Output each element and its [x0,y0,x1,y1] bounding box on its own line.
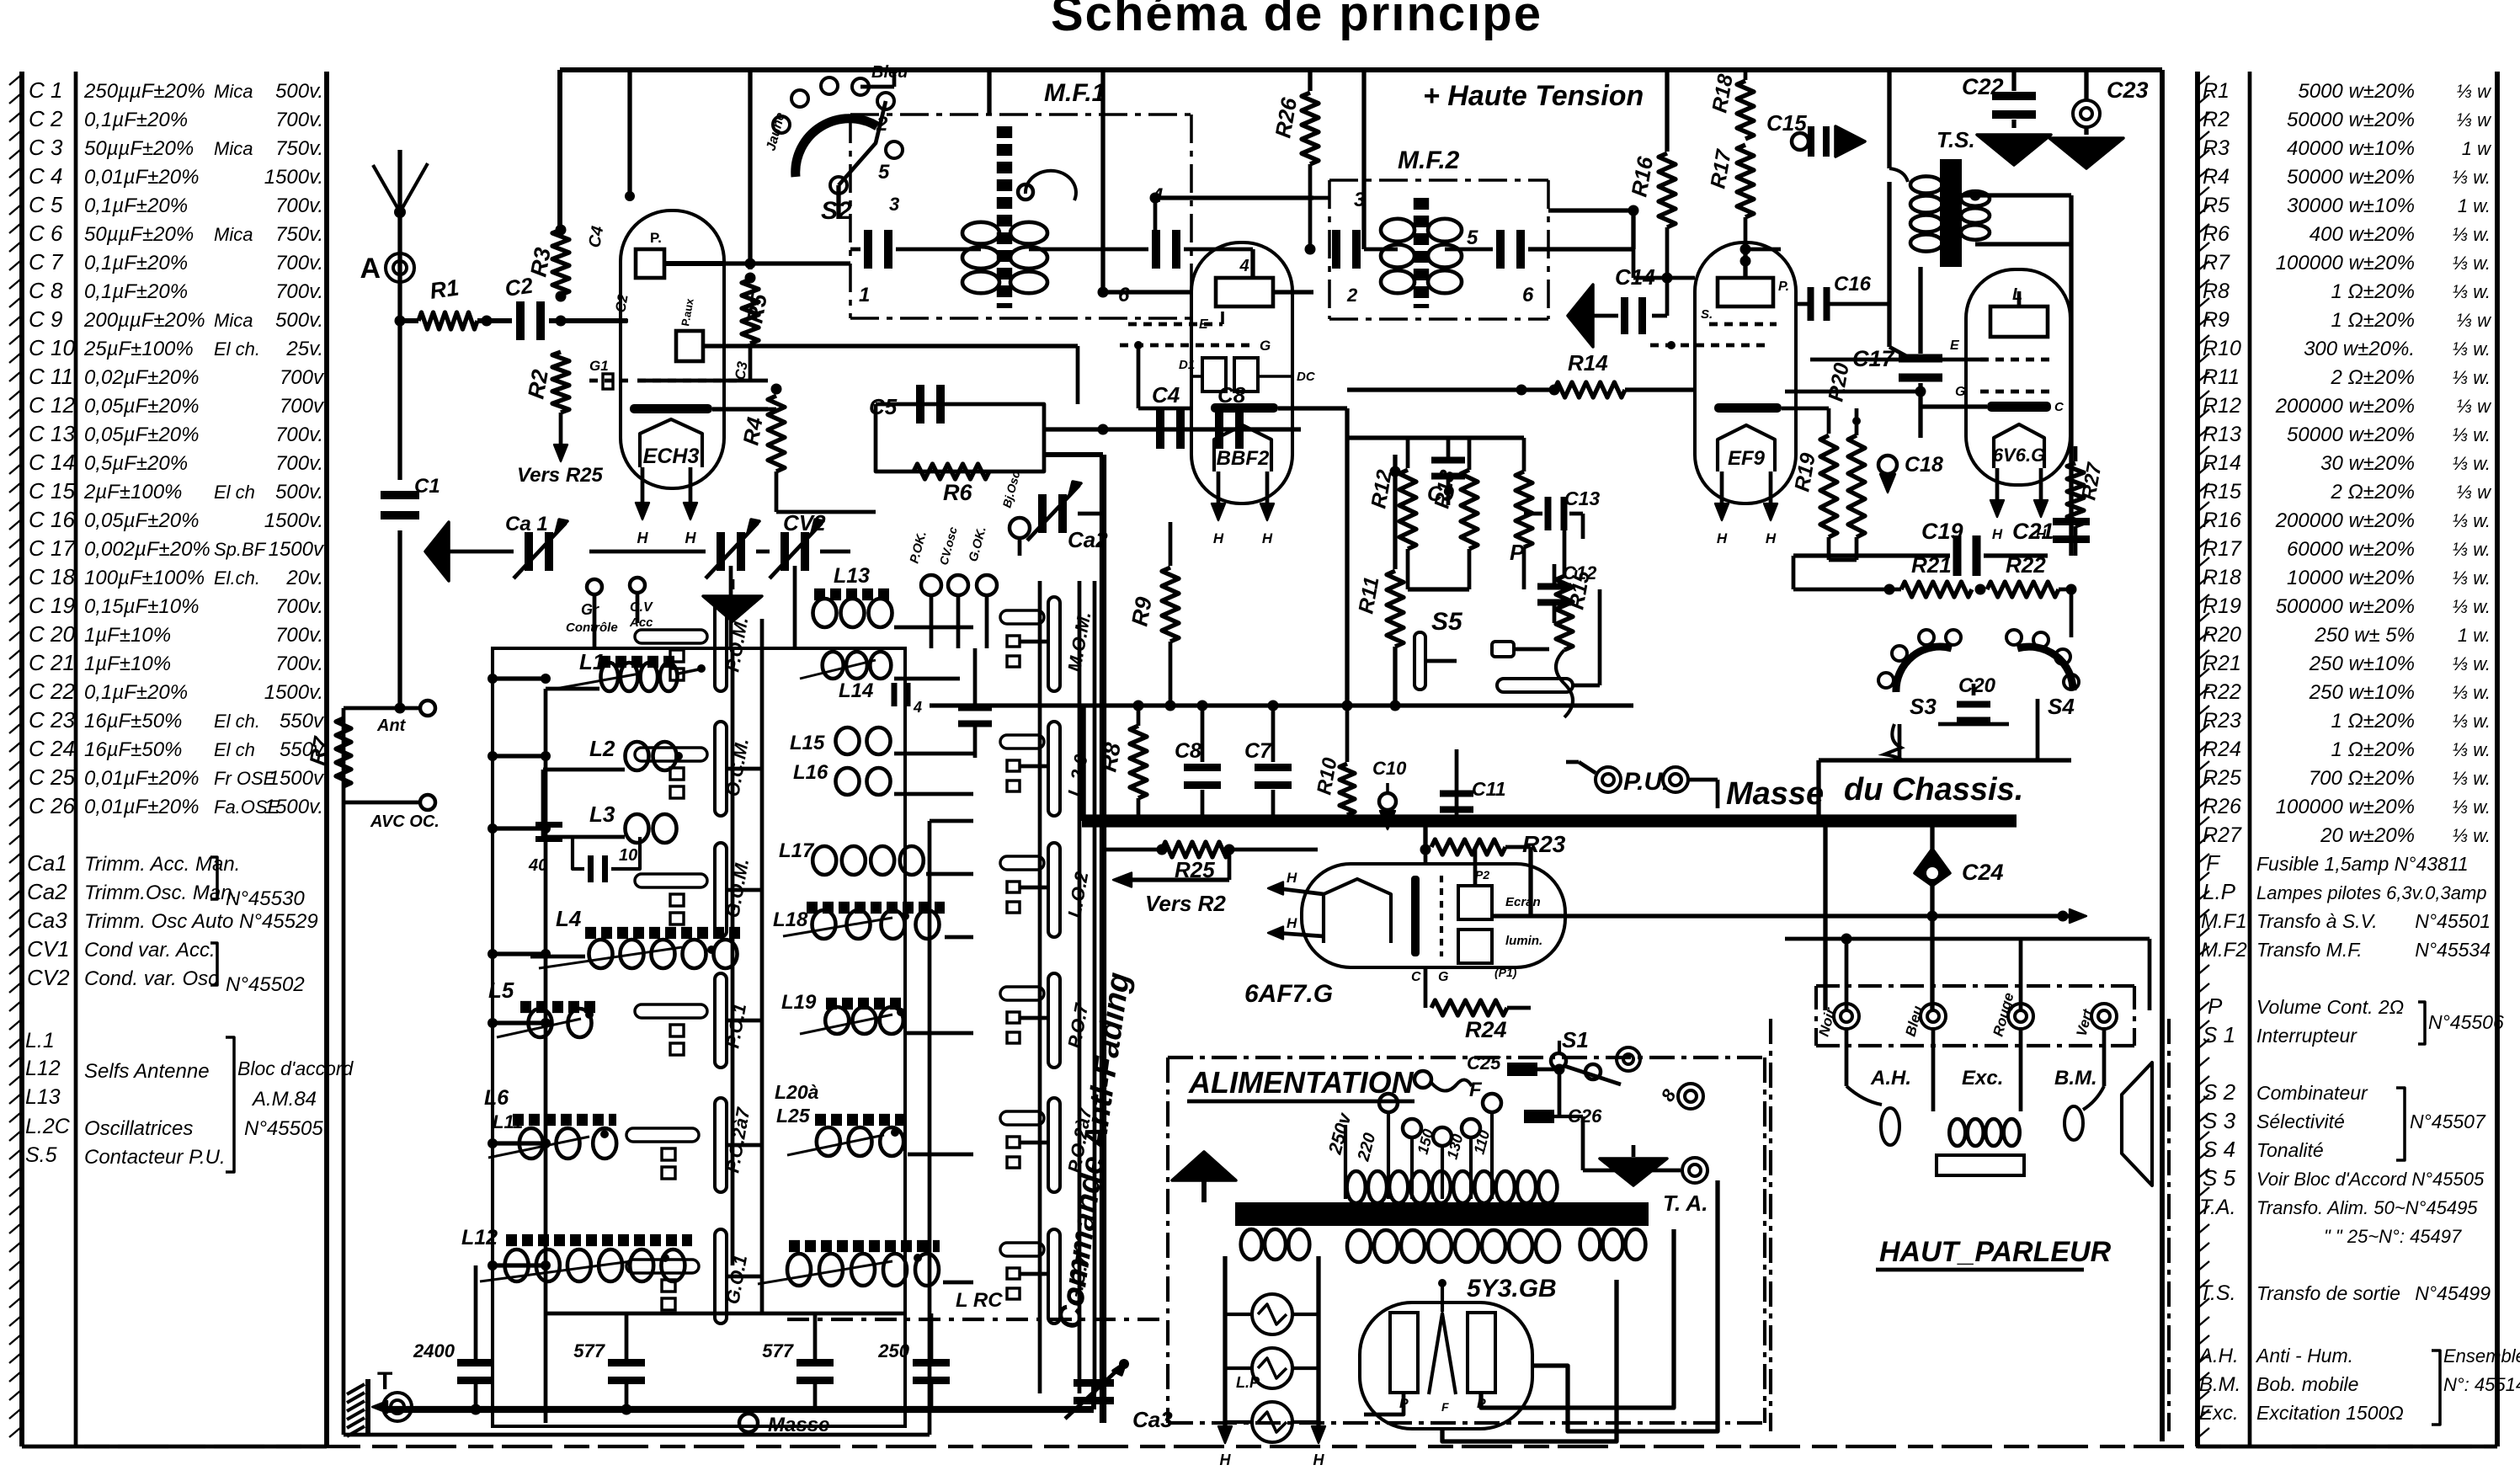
svg-text:C 25: C 25 [29,764,75,790]
svg-text:R20: R20 [2203,623,2241,647]
svg-text:50000 w±20%: 50000 w±20% [2287,109,2415,131]
M.F.2 secondary coil [1428,219,1462,242]
resistor R11 [1393,455,1397,569]
pilot lamp LP1 [1252,1294,1292,1334]
coil L1 core [599,656,679,668]
svg-text:L17: L17 [779,839,815,862]
wire MF1 pin4 row [1155,195,1313,200]
svg-text:R14: R14 [2203,451,2241,475]
svg-text:700v.: 700v. [275,252,323,274]
fuse F [1415,1071,1431,1088]
resistor R24 [1424,967,1428,1008]
contact strips right column [1048,597,1060,691]
capacitor C9 [1431,457,1465,464]
svg-text:Ensemble: Ensemble [2443,1345,2520,1366]
capacitor 40 [535,822,562,828]
terminals P.U. [1596,767,1621,792]
T.S. primary coil [1910,176,1942,193]
svg-text:Volume Cont. 2Ω: Volume Cont. 2Ω [2256,996,2404,1018]
svg-text:0,1µF±20%: 0,1µF±20% [84,681,188,704]
svg-text:R21: R21 [1911,552,1952,578]
coil L15 [836,727,860,754]
trimmer Ca1 [525,532,533,571]
svg-text:20 w±20%: 20 w±20% [2320,824,2415,847]
svg-text:G1: G1 [589,358,609,374]
svg-text:S.5: S.5 [25,1143,57,1167]
wire top row pin4 [1313,196,1329,200]
left table bottom rule [22,1445,327,1449]
svg-text:R6: R6 [943,480,972,505]
svg-text:G: G [1438,970,1448,984]
svg-text:R15: R15 [2203,480,2241,503]
bottom wire of outer box [344,1433,930,1437]
svg-text:1µF±10%: 1µF±10% [84,624,171,647]
svg-text:700v: 700v [280,395,325,418]
svg-text:A: A [360,253,381,285]
variable capacitor CV2 [781,532,789,571]
svg-text:Mica: Mica [214,224,253,245]
trimmer capacitor C1 [381,491,419,499]
svg-text:250 w±10%: 250 w±10% [2309,653,2415,675]
capacitor C13 [1524,512,1542,516]
svg-text:577: 577 [762,1340,794,1361]
capacitor 250 [913,1359,950,1366]
svg-text:N°45534: N°45534 [2415,939,2491,961]
svg-text:40000 w±10%: 40000 w±10% [2287,137,2415,160]
tube 6AF7 envelope [1302,864,1565,967]
svg-text:2 Ω±20%: 2 Ω±20% [2331,481,2415,503]
resistor R8 [1133,701,1144,711]
S2 hub lines [839,101,886,185]
pilot lamp LP3 [1252,1402,1292,1442]
resistor R12 [1406,438,1410,468]
svg-text:Interrupteur: Interrupteur [2256,1025,2358,1047]
capacitor C26 [1524,1110,1554,1123]
svg-text:3: 3 [1354,189,1366,211]
oscillator terminals [921,575,941,595]
svg-text:1 Ω±20%: 1 Ω±20% [2331,309,2415,332]
svg-text:El ch: El ch [214,739,255,760]
resistor R1 [418,312,477,329]
svg-text:0,5µF±20%: 0,5µF±20% [84,452,188,475]
svg-text:L4: L4 [556,906,582,931]
capacitor 577 b [796,1359,834,1366]
svg-text:L.P: L.P [2203,879,2236,904]
svg-text:L16: L16 [793,761,828,784]
ECH3 dashed grid C4 lead [589,319,630,323]
svg-text:Ecran: Ecran [1505,895,1541,909]
coil L3 [626,814,649,843]
svg-text:C 22: C 22 [29,679,75,704]
svg-text:⅓ w.: ⅓ w. [2453,825,2491,846]
svg-text:R6: R6 [2203,222,2230,246]
svg-text:S1: S1 [1562,1027,1589,1052]
antenna [397,150,402,324]
resistor R15 [1563,505,1567,574]
T.S. wires [1887,70,1891,168]
coil L18 core [807,902,945,914]
svg-text:N°45506: N°45506 [2428,1011,2504,1033]
coil L12 [505,1249,529,1281]
svg-text:C 26: C 26 [29,793,75,818]
svg-text:R9: R9 [1127,595,1157,628]
svg-text:Trimm. Osc Auto N°45529: Trimm. Osc Auto N°45529 [84,910,318,933]
right component table frame [2195,72,2200,1446]
svg-text:Lampes pilotes 6,3v.0,3amp: Lampes pilotes 6,3v.0,3amp [2256,882,2487,903]
wire S2 to MF1 top [860,85,894,89]
left rail of coil box [544,689,548,1423]
svg-text:R17: R17 [2203,537,2242,561]
svg-text:⅓ w.: ⅓ w. [2453,424,2491,445]
coil L18 [812,910,836,939]
svg-text:N°: 45514: N°: 45514 [2443,1374,2520,1395]
svg-text:577: 577 [573,1340,605,1361]
svg-text:C 14: C 14 [29,450,75,475]
svg-text:200000 w±20%: 200000 w±20% [2275,509,2415,532]
resistor R25 [1103,848,1162,852]
capacitor C17 [1899,354,1942,363]
svg-text:4: 4 [1239,257,1249,275]
svg-text:C 10: C 10 [29,335,75,360]
switch S4 [2017,647,2073,690]
svg-text:Bob. mobile: Bob. mobile [2256,1373,2358,1395]
svg-text:60000 w±20%: 60000 w±20% [2287,538,2415,561]
ECH3 heater leads H H [641,467,645,505]
svg-text:0,05µF±20%: 0,05µF±20% [84,509,199,532]
svg-text:L25: L25 [776,1105,811,1127]
5Y3 plate wires [1364,1393,1404,1414]
capacitor C8b [1201,706,1205,762]
switch S3 [1896,647,1952,692]
tube 5Y3 envelope [1360,1303,1532,1429]
6AF7 heater pentagon [1324,879,1391,943]
capacitor C5 [916,385,924,424]
wire ECH3 anode to MF1 [724,261,850,265]
EF9 cathode bar [1714,403,1782,413]
M.F.2 left capacitor [1332,230,1340,269]
BBF2 grid dashes E [1128,322,1223,327]
svg-text:Transfo. Alim. 50~N°45495: Transfo. Alim. 50~N°45495 [2256,1197,2478,1218]
coil L19 [825,1007,849,1034]
svg-text:R8: R8 [1095,741,1126,774]
svg-text:L12: L12 [25,1057,61,1080]
svg-text:R14: R14 [1568,350,1608,376]
svg-text:2 Ω±20%: 2 Ω±20% [2331,366,2415,389]
svg-text:N°45505: N°45505 [244,1117,323,1140]
mains wire left [1344,1125,1347,1199]
svg-text:⅓ w: ⅓ w [2457,396,2492,417]
svg-text:C 9: C 9 [29,306,62,332]
wire C2 to tube grid [549,318,627,323]
svg-text:Cond. var. Osc: Cond. var. Osc [84,967,218,990]
S3 S4 bottom wires [1819,758,2071,762]
alim right loop wire [1532,1180,1718,1431]
svg-text:F: F [1441,1400,1449,1414]
svg-text:C 20: C 20 [29,621,75,647]
svg-text:C7: C7 [1244,739,1272,763]
svg-text:50µµF±20%: 50µµF±20% [84,223,194,246]
ground arrow below CV1 [731,579,735,589]
svg-text:1500v: 1500v [269,538,325,561]
svg-text:" " 25~N°: 45497: " " 25~N°: 45497 [2324,1226,2462,1247]
svg-text:N°45502: N°45502 [226,973,305,996]
svg-text:R22: R22 [2203,680,2241,704]
wire R1 to C2 [477,318,512,323]
svg-text:Excitation 1500Ω: Excitation 1500Ω [2256,1402,2404,1424]
svg-text:0,1µF±20%: 0,1µF±20% [84,252,188,274]
svg-text:B.M.: B.M. [2199,1373,2240,1396]
right table bottom rule [2198,1445,2497,1449]
svg-text:100000 w±20%: 100000 w±20% [2276,252,2415,274]
coil unit box [493,648,905,1426]
svg-text:C20: C20 [1958,674,1996,697]
svg-text:Ca2: Ca2 [1068,527,1108,552]
tube BBF2 envelope [1191,242,1292,503]
svg-text:C: C [2054,400,2064,414]
6V6 heater pentagon [1994,424,2044,468]
svg-text:Ca2: Ca2 [27,879,67,904]
svg-text:⅓ w: ⅓ w [2457,482,2492,503]
svg-text:C11: C11 [1472,778,1506,800]
svg-text:L14: L14 [839,679,873,702]
capacitor C24 [1915,849,1950,886]
vertical wire from top frame x=891 [748,70,752,269]
speaker terminal strip box [1816,984,2134,988]
svg-text:0,002µF±20%: 0,002µF±20% [84,538,210,561]
EF9 heater pentagon [1718,425,1775,471]
ECH3 aux anode box [676,331,703,361]
svg-text:S 2: S 2 [2203,1079,2236,1105]
svg-text:16µF±50%: 16µF±50% [84,710,182,733]
wire grid row to R5 [637,379,768,383]
outer box right wire [928,821,932,1435]
svg-text:250µµF±20%: 250µµF±20% [83,80,205,103]
wire MF2 to EF9 [1632,249,1636,278]
center connecting wires [1347,435,1524,440]
svg-text:Transfo de sortie: Transfo de sortie [2256,1282,2400,1304]
svg-text:⅓ w.: ⅓ w. [2453,596,2491,617]
svg-text:Gr: Gr [581,601,599,618]
T.A. primary coil [1347,1171,1366,1203]
svg-text:(P1): (P1) [1494,966,1517,979]
capacitor C2 [516,301,525,340]
svg-text:C 13: C 13 [29,421,75,446]
svg-text:Combinateur: Combinateur [2256,1082,2368,1104]
svg-text:1500v.: 1500v. [264,166,323,189]
svg-text:C 2: C 2 [29,106,63,131]
svg-text:6AF7.G: 6AF7.G [1244,980,1333,1008]
svg-text:H: H [1287,915,1297,931]
svg-text:C21: C21 [2012,519,2054,544]
svg-text:El ch.: El ch. [214,711,260,732]
svg-text:C 4: C 4 [29,163,62,189]
svg-text:20v.: 20v. [285,567,323,589]
svg-text:0,05µF±20%: 0,05µF±20% [84,395,199,418]
svg-text:L19: L19 [781,991,817,1014]
coil L1 [601,663,619,691]
svg-text:⅓ w.: ⅓ w. [2453,796,2491,818]
svg-text:700v.: 700v. [275,653,323,675]
svg-text:1500v: 1500v [269,767,325,790]
svg-text:⅓ w.: ⅓ w. [2453,567,2491,589]
M.F.2 core [1414,198,1429,308]
svg-text:C 16: C 16 [29,507,75,532]
6AF7 wires [1424,850,1428,864]
potentiometer P [1516,471,1532,547]
svg-text:400 w±20%: 400 w±20% [2310,223,2415,246]
voltage selector rings [1379,1094,1398,1112]
svg-text:30 w±20%: 30 w±20% [2320,452,2415,475]
svg-text:C.V: C.V [630,600,653,615]
svg-text:H: H [685,530,697,546]
svg-text:R23: R23 [2203,709,2241,733]
transformer T.A. core bar [1235,1202,1649,1226]
svg-text:L15: L15 [790,732,825,754]
svg-text:700v.: 700v. [275,624,323,647]
svg-text:1500v.: 1500v. [264,509,323,532]
svg-text:Exc.: Exc. [2199,1402,2239,1425]
svg-text:C19: C19 [1921,519,1963,544]
svg-text:Trimm.Osc. Man.: Trimm.Osc. Man. [84,882,237,904]
resistor R7 [336,718,351,786]
strip feed wires [1020,640,1048,644]
coil L19 core [826,998,903,1010]
svg-text:0,01µF±20%: 0,01µF±20% [84,796,199,818]
svg-text:200µµF±20%: 200µµF±20% [83,309,205,332]
capacitor C14 with ground [1568,285,1593,347]
resistor R6 [914,464,989,479]
capacitor 10 [588,855,594,882]
capacitor C4 [1044,427,1301,431]
svg-text:550v: 550v [280,710,325,733]
tube EF9 envelope [1695,242,1796,503]
capacitor C18 [1878,455,1897,474]
svg-text:Mica: Mica [214,81,253,102]
svg-text:⅓ w.: ⅓ w. [2453,367,2491,388]
svg-text:⅓ w: ⅓ w [2457,81,2492,102]
svg-text:Ca 1: Ca 1 [505,513,548,535]
svg-text:⅓ w: ⅓ w [2457,109,2492,131]
svg-text:⅓ w.: ⅓ w. [2453,281,2491,302]
svg-text:R8: R8 [2203,280,2230,303]
svg-text:Sp.BF: Sp.BF [214,539,267,560]
coil L17 [812,846,836,875]
wire Paux extension [758,344,1078,348]
schematic right border wire [2160,70,2165,1441]
svg-text:50000 w±20%: 50000 w±20% [2287,166,2415,189]
capacitor C19 [1793,553,1950,557]
svg-text:R26: R26 [2203,795,2241,818]
M.F.2 right capacitor [1496,230,1505,269]
M.F.1 top link coil [1026,171,1076,200]
svg-text:L5: L5 [488,978,514,1003]
ECH3 grid C3 lead dashes [637,379,741,383]
svg-text:C14: C14 [1615,264,1655,290]
svg-text:200000 w±20%: 200000 w±20% [2275,395,2415,418]
svg-text:T. A.: T. A. [1663,1191,1708,1216]
svg-text:250 w± 5%: 250 w± 5% [2314,624,2415,647]
svg-text:Anti - Hum.: Anti - Hum. [2255,1345,2353,1366]
svg-text:1 w.: 1 w. [2458,195,2491,216]
svg-text:R5: R5 [2203,194,2230,217]
svg-text:S4: S4 [2048,694,2075,719]
resistor R17 [1737,145,1754,217]
speaker cone [2122,1063,2152,1185]
coil L13 [813,599,837,627]
resistor R20 [1852,417,1861,425]
svg-text:1500v.: 1500v. [264,796,323,818]
svg-text:C3: C3 [732,360,751,381]
svg-text:du Chassis.: du Chassis. [1844,772,2023,807]
resistor R10 [1345,706,1350,762]
svg-text:10: 10 [619,846,637,865]
capacitor C16 [1796,302,1810,306]
svg-text:L12: L12 [461,1226,498,1249]
coil L20-L25 core [815,1114,905,1126]
svg-text:Ca3: Ca3 [27,908,67,933]
svg-text:C5: C5 [869,394,898,419]
wire bus to C24 [1930,827,1934,860]
alim big ground arrow [1172,1152,1236,1180]
svg-text:C18: C18 [1905,453,1943,477]
wire antenna to R1 [395,316,406,327]
capacitor 4 [892,683,898,706]
svg-text:Contacteur P.U.: Contacteur P.U. [84,1146,226,1169]
coil L4-L11 [589,940,613,968]
svg-text:BBF2: BBF2 [1217,447,1270,470]
capacitor C15 [1745,248,1781,252]
coil box lane vertical d [1093,581,1097,1393]
svg-text:R9: R9 [2203,308,2230,332]
svg-text:R7: R7 [2203,251,2230,274]
coil box inner vertical a [731,679,735,1265]
svg-text:750v.: 750v. [275,137,323,160]
svg-text:L3: L3 [589,802,615,827]
svg-text:R27: R27 [2203,823,2242,847]
wire MF1 box top to frame [987,70,991,115]
capacitor 577 a [608,1359,645,1366]
dash link to alimentation [787,1318,1166,1321]
svg-text:10000 w±20%: 10000 w±20% [2287,567,2415,589]
svg-text:⅓ w: ⅓ w [2457,310,2492,331]
svg-text:⅓ w.: ⅓ w. [2453,539,2491,560]
left component table frame [19,72,24,1446]
svg-text:S 5: S 5 [2203,1165,2236,1191]
capacitor on riser [958,705,992,711]
wire Ca2 links [1018,538,1022,556]
capacitor C11 [1455,775,1459,821]
svg-text:R7: R7 [304,734,334,767]
wires below R19 R20 [1827,537,1831,560]
svg-text:C2: C2 [503,273,535,301]
coil L13 core [814,589,892,600]
svg-text:5: 5 [878,161,890,184]
svg-text:R5: R5 [742,291,772,325]
wire HT vertical [1361,70,1366,249]
svg-text:0,1µF±20%: 0,1µF±20% [84,194,188,217]
svg-text:R18: R18 [2203,566,2241,589]
svg-text:C 18: C 18 [29,564,75,589]
BBF2 diode boxes [1202,358,1226,392]
switch S2 arc [796,119,877,177]
svg-text:H: H [1717,530,1728,546]
svg-text:⅓ w.: ⅓ w. [2453,711,2491,732]
svg-text:Transfo à S.V.: Transfo à S.V. [2256,910,2378,932]
svg-text:1500v.: 1500v. [264,681,323,704]
svg-text:H: H [1262,530,1273,546]
svg-text:C 5: C 5 [29,192,63,217]
svg-text:EF9: EF9 [1728,447,1766,470]
